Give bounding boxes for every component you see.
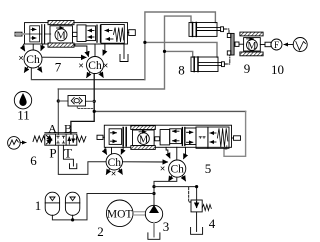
motor 9 hatch bottom <box>240 52 263 56</box>
motor 9 hatch top <box>240 32 263 36</box>
junction dots pump riser <box>152 185 155 188</box>
choke Ch3 <box>106 154 122 178</box>
force sensor F <box>271 39 282 50</box>
valve 7 motor box <box>50 26 73 43</box>
valve 6 left spring <box>33 136 45 142</box>
wire: rod-side net vertical x=145 <box>145 12 216 80</box>
svg-text:4: 4 <box>209 216 216 231</box>
pilot box arrows <box>105 30 112 32</box>
upper rod end stub <box>221 27 224 32</box>
motor M2 arrow <box>139 131 146 133</box>
valve 5 pilot spring <box>217 128 227 147</box>
wire: pump to accumulators <box>52 194 154 220</box>
valve 7 spool bars <box>41 25 43 43</box>
wire: cap-side net <box>58 16 191 89</box>
valve 7 right spool bars <box>96 25 98 42</box>
motor 9 shaft right <box>260 44 265 46</box>
svg-text:3: 3 <box>163 219 170 234</box>
svg-text:✕: ✕ <box>78 62 84 70</box>
arrow V to F <box>284 44 293 46</box>
pilot box spring <box>114 28 124 43</box>
signal generator circle <box>8 137 21 150</box>
valve 7 drain to tank <box>123 44 125 59</box>
valve 7 right metering box <box>86 26 96 41</box>
valve 7 right box arrows <box>88 30 94 32</box>
valve 5 motor hatch bottom <box>131 146 156 150</box>
wire: pump to relief valve <box>154 187 197 200</box>
svg-text:9: 9 <box>244 61 251 76</box>
svg-text:✕: ✕ <box>18 55 24 63</box>
wire: cap-side branch to lower cylinder <box>165 51 193 57</box>
choke Ch4 <box>160 160 186 181</box>
svg-text:6: 6 <box>30 153 37 168</box>
accumulator left <box>45 192 59 215</box>
lower cylinder body <box>191 57 218 72</box>
lower rod end stub <box>222 62 225 67</box>
valve 5 connector <box>155 137 160 141</box>
yoke bottom tab <box>227 51 231 55</box>
valve 6 cell3 arrows <box>68 137 70 144</box>
wire: long line to assembly 5 right <box>94 110 245 112</box>
svg-text:5: 5 <box>205 161 212 176</box>
choke Ch2 <box>78 57 108 78</box>
wire: rod-side branch to lower cylinder <box>145 42 217 57</box>
upper rod link dash-dot <box>224 29 230 33</box>
svg-text:Ch: Ch <box>170 164 184 176</box>
valve 6 body <box>45 134 77 145</box>
valve 7 supply line gray <box>15 33 41 35</box>
valve 7 drain arrows to Ch1 <box>22 44 42 51</box>
wire Ch1 to Ch2 with arrow <box>42 56 86 58</box>
svg-text:✕: ✕ <box>103 62 109 70</box>
valve 5 left metering box <box>109 129 122 145</box>
accumulator right <box>65 192 79 215</box>
valve 5 box rightarrows <box>185 128 196 145</box>
tank under valve 7 <box>120 55 128 62</box>
T port line <box>63 145 73 166</box>
upper cylinder rod <box>196 27 220 29</box>
P port line <box>58 145 106 174</box>
relief spring <box>202 205 211 211</box>
svg-text:P: P <box>49 145 56 160</box>
orifice meter pilot dashed line <box>77 106 93 108</box>
accumulator 2 riser <box>72 215 74 220</box>
motor 9 arrow <box>247 38 254 40</box>
orifice flow meter box <box>68 96 86 107</box>
valve 5 tall box <box>160 130 170 145</box>
relief pilot dashed <box>189 188 191 203</box>
wire: A-port line <box>57 89 59 135</box>
lower cylinder piston <box>193 57 195 72</box>
valve 5 drain arrows to Ch4 <box>166 147 185 160</box>
valve 6 cell2 blocked center <box>57 136 65 138</box>
svg-text:Ch: Ch <box>88 60 102 72</box>
valve 7 left port stub <box>15 32 22 36</box>
choke Ch1 <box>18 50 42 72</box>
svg-text:MOT: MOT <box>107 209 133 221</box>
valve 5 spool bars <box>122 128 124 147</box>
valve 6 right spring <box>76 136 86 142</box>
motor 9 circle <box>247 40 258 51</box>
valve 5 pilot box <box>208 127 229 148</box>
wire: orifice meter input <box>58 100 68 102</box>
svg-text:Ch: Ch <box>108 157 122 169</box>
svg-text:✕: ✕ <box>111 170 117 178</box>
wire: Ch2 drain down to B-line <box>71 74 94 134</box>
valve 7 motor hatch bottom <box>48 43 74 47</box>
relief tank line <box>196 212 198 232</box>
valve 7 left metering box <box>30 26 40 42</box>
pump suction <box>153 223 155 237</box>
valve 7 connector <box>73 32 78 36</box>
upper cylinder body <box>189 23 217 37</box>
wire: orifice meter output to junction <box>86 100 95 102</box>
yoke connector <box>235 42 239 46</box>
svg-text:1: 1 <box>35 198 42 213</box>
svg-text:Ch: Ch <box>26 54 40 66</box>
wire: Ch1 drain to corner <box>31 68 144 80</box>
valve 7 pilot box <box>101 25 124 44</box>
lower rod link dash-dot <box>224 55 229 64</box>
valve 7 right port stub <box>129 30 136 36</box>
junction at cap branch <box>163 50 166 53</box>
valve 5 drain arrows to Ch3 <box>104 148 123 155</box>
motor M2 circle <box>138 133 150 145</box>
svg-text:T: T <box>64 145 72 160</box>
junction dots on Ch2 drain <box>93 100 96 103</box>
svg-text:2: 2 <box>97 224 104 239</box>
valve 5 motor hatch top <box>131 126 156 130</box>
valve 7 left box arrows <box>31 28 36 30</box>
valve 7 tall box <box>77 25 86 42</box>
svg-text:✕: ✕ <box>160 165 166 173</box>
svg-text:F: F <box>274 40 279 50</box>
svg-text:8: 8 <box>178 63 185 78</box>
svg-text:M: M <box>56 30 66 41</box>
svg-text:11: 11 <box>17 108 30 123</box>
valve 5 center box <box>196 127 208 148</box>
tank under T <box>70 164 77 169</box>
svg-text:A: A <box>48 122 57 136</box>
svg-text:M: M <box>139 134 149 145</box>
lower cylinder rod <box>198 62 222 64</box>
valve 7 drain arrows to Ch2 <box>75 44 105 56</box>
valve 5 box leftarrows <box>170 129 182 144</box>
valve 5 bars2 <box>181 128 183 146</box>
valve 5 left port stub <box>97 135 103 139</box>
motor M1 arrow <box>57 27 64 29</box>
valve 7 envelope <box>25 23 128 44</box>
yoke top tab <box>227 33 231 37</box>
svg-text:B: B <box>64 122 72 136</box>
coupling <box>133 211 146 213</box>
valve 6 cell1 cross arrows <box>46 135 52 140</box>
junction at rod branch <box>143 41 146 44</box>
valve 7 motor hatch top <box>48 21 74 25</box>
svg-text:7: 7 <box>55 60 62 75</box>
motor 9 box <box>244 38 261 51</box>
valve 5 envelope <box>104 125 231 147</box>
valve 5 right port stub <box>234 136 241 141</box>
yoke bar <box>231 33 234 55</box>
wire: drop to assembly 5 drain <box>224 111 246 156</box>
wire Ch3 to Ch4 with arrow <box>123 161 168 163</box>
velocity sensor V <box>293 38 307 52</box>
wire: Ch4 drain to pump <box>154 177 177 205</box>
svg-text:M: M <box>247 41 256 52</box>
motor M1 circle <box>55 29 67 41</box>
upper cylinder piston <box>192 23 194 37</box>
valve 5 motor box <box>133 130 155 146</box>
svg-text:10: 10 <box>271 62 284 77</box>
signal arrow <box>20 142 26 144</box>
